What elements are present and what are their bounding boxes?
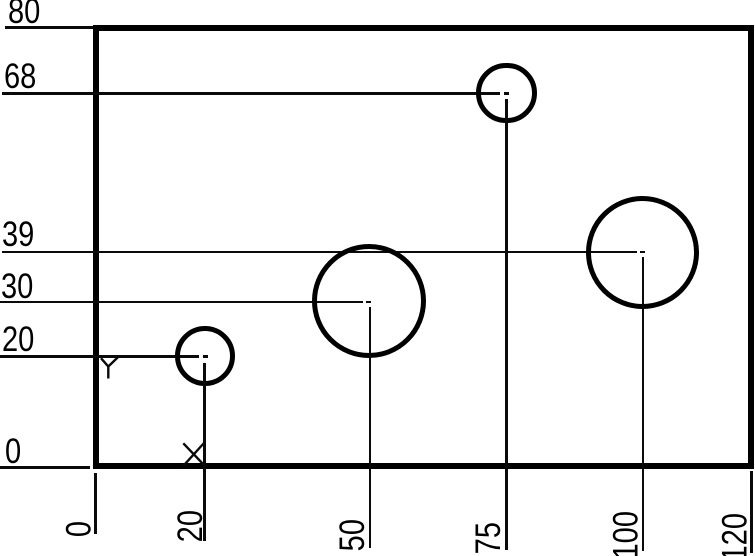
extension line x=50 — [369, 307, 372, 548]
hole circle C4 at (100,39) — [586, 196, 699, 309]
bottom label 50 — [335, 519, 370, 551]
label 0 (y axis) — [5, 434, 21, 469]
axis marker X — [181, 441, 207, 468]
hole circle C1 at (20,20) — [175, 326, 235, 386]
label 68 — [4, 59, 36, 94]
label 30 — [1, 269, 33, 304]
extension line x=75 — [505, 99, 508, 550]
extension line x=20 — [203, 363, 206, 541]
label 39 — [2, 217, 34, 252]
dimension line y=39 — [2, 251, 637, 254]
bottom label 100 — [608, 511, 643, 556]
dimension line y=68 — [2, 92, 500, 95]
tick x=0 below plate corner — [94, 473, 97, 535]
label 80 — [8, 0, 40, 29]
dimension line y=30 — [0, 301, 363, 304]
dimension line y=80 — [5, 26, 93, 29]
axis marker Y — [98, 354, 122, 382]
tick x=120 below plate corner — [750, 471, 753, 553]
bottom label 0 (x axis) — [61, 521, 96, 537]
center mark C2 — [366, 301, 371, 304]
bottom label 20 — [173, 510, 208, 542]
bottom label 75 — [471, 522, 506, 554]
label 20 — [2, 322, 34, 357]
center mark C4 — [640, 251, 645, 254]
center mark C1 — [203, 355, 208, 358]
hole circle C3 at (75,68) — [476, 63, 536, 123]
plate outline rectangle — [93, 25, 754, 469]
bottom label 120 — [717, 513, 752, 556]
dimension line y=0 — [0, 466, 90, 469]
dimension line y=20 — [0, 355, 199, 358]
hole circle C2 at (50,30) — [312, 244, 426, 358]
extension line x=100 — [642, 257, 645, 551]
center mark C3 — [504, 92, 509, 95]
